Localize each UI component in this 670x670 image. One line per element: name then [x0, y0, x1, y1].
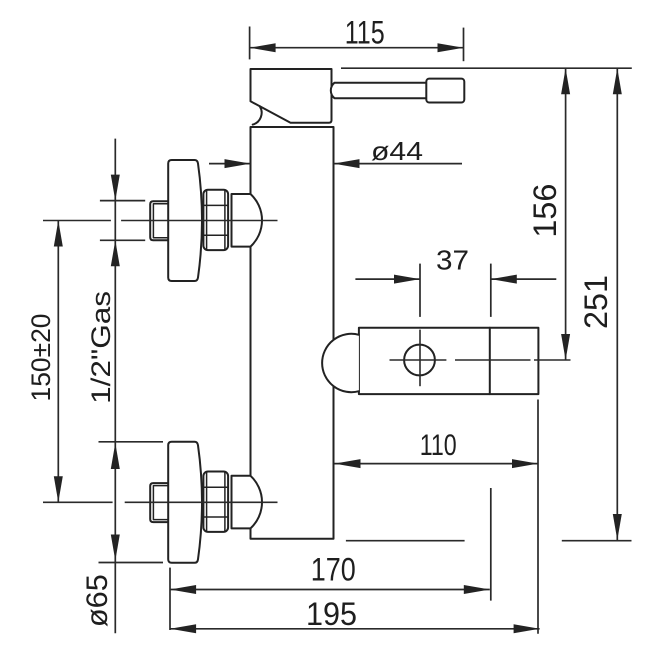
svg-text:1/2"Gas: 1/2"Gas	[86, 291, 116, 404]
svg-text:195: 195	[306, 596, 357, 632]
svg-text:ø65: ø65	[81, 574, 114, 627]
svg-text:115: 115	[345, 15, 385, 51]
svg-text:170: 170	[311, 552, 356, 588]
svg-text:150±20: 150±20	[26, 314, 56, 402]
svg-text:ø44: ø44	[371, 136, 423, 166]
svg-text:251: 251	[578, 275, 614, 329]
svg-text:37: 37	[436, 245, 469, 276]
svg-text:110: 110	[420, 429, 457, 462]
svg-text:156: 156	[527, 184, 563, 238]
